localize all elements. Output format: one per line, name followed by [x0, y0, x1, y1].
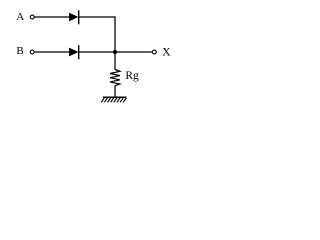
resistor Rg	[110, 70, 120, 86]
terminal A	[30, 15, 34, 19]
terminal X	[152, 50, 156, 54]
wire D1 to corner	[79, 16, 115, 18]
diode D2	[69, 45, 79, 59]
wire A input	[34, 16, 69, 18]
wire B input	[34, 51, 69, 53]
svg-text:Rg: Rg	[125, 70, 139, 82]
wire D2 to output	[79, 51, 152, 53]
ground	[101, 97, 126, 102]
wire vertical from corner through junction to resistor	[114, 16, 116, 69]
svg-text:X: X	[162, 46, 171, 58]
svg-text:B: B	[16, 45, 23, 57]
junction dot	[113, 50, 117, 54]
wire resistor to ground	[114, 86, 116, 98]
svg-text:A: A	[16, 11, 24, 23]
terminal B	[30, 50, 34, 54]
diode D1	[69, 10, 79, 24]
